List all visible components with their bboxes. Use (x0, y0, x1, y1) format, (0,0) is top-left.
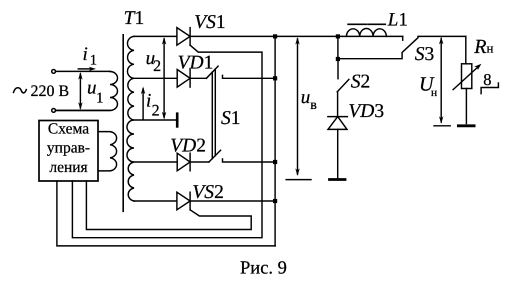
svg-text:S3: S3 (415, 44, 435, 65)
current arrow i2 (142, 89, 144, 120)
switch S2 upper lead (337, 59, 339, 79)
thyristor VS1 (177, 28, 190, 46)
control box (39, 121, 98, 182)
svg-text:u2: u2 (146, 48, 162, 75)
wire control common to cathode bus (57, 181, 275, 246)
diode VD2 (177, 153, 190, 171)
svg-text:VD1: VD1 (178, 52, 214, 73)
node dot S2 branch (336, 57, 340, 61)
wire row2 (134, 77, 206, 79)
svg-text:VS1: VS1 (194, 12, 225, 33)
svg-text:u1: u1 (87, 77, 104, 106)
svg-text:VD3: VD3 (348, 101, 384, 122)
wire VS2 gate to control box (86, 181, 251, 230)
node dot row4/bus (273, 160, 277, 164)
voltage arrow u2 (163, 39, 165, 118)
inductor L1 (346, 29, 386, 37)
wire row3 center tap (134, 119, 176, 121)
svg-text:VS2: VS2 (192, 182, 223, 203)
svg-text:S2: S2 (351, 71, 371, 92)
wire source bottom (56, 109, 110, 111)
resistor Rn (462, 64, 472, 89)
wire source top (56, 70, 110, 72)
switch S1 top blade (206, 66, 218, 78)
wire load branch down (465, 36, 467, 63)
wire node L1 input vertical (337, 36, 339, 59)
svg-text:Схема: Схема (48, 121, 89, 138)
wire S3 bypass branch (338, 38, 418, 59)
diode VD3 (328, 116, 348, 118)
node dot top (336, 34, 340, 38)
svg-text:220 В: 220 В (31, 83, 70, 100)
primary winding (56, 72, 118, 111)
wire row5 (134, 200, 275, 202)
resistor Rn variable arrow (453, 66, 479, 90)
switch S1 link lines (211, 72, 213, 158)
switch S1 bottom blade (209, 150, 221, 162)
current arrow i1 (78, 68, 92, 70)
node uv reference bar (286, 179, 311, 181)
voltage arrow Un (440, 39, 442, 123)
wire VD3 anode down (337, 129, 339, 178)
svg-text:Rн: Rн (473, 36, 493, 58)
svg-text:S1: S1 (221, 108, 241, 129)
AC source terminal bottom (52, 109, 56, 113)
wire row4 fixed contact to bus (223, 159, 276, 162)
switch S2 blade (337, 79, 349, 92)
node dot row1/bus (273, 34, 277, 38)
wire row4 (134, 161, 209, 163)
wire VS1 gate to control box (72, 45, 262, 238)
svg-text:i2: i2 (146, 90, 160, 119)
diode VD1 (177, 70, 190, 88)
transformer T1 core (122, 35, 124, 212)
voltage arrow u1 (79, 74, 81, 108)
svg-text:Рис. 9: Рис. 9 (240, 259, 287, 279)
inductor L1 core dashes (348, 23, 366, 25)
svg-text:T1: T1 (124, 8, 145, 29)
node dot row5/bus (273, 199, 277, 203)
node center tap bar (176, 114, 179, 127)
secondary winding (127, 36, 134, 201)
wire row1 after S3 (418, 35, 466, 37)
svg-text:L1: L1 (387, 9, 408, 30)
svg-text:управ-: управ- (47, 140, 90, 157)
thyristor VS2 (177, 192, 190, 210)
svg-text:i1: i1 (83, 44, 98, 69)
wire row2 fixed contact to bus (223, 75, 276, 78)
node dot row2/bus (273, 76, 277, 80)
sync winding (98, 132, 116, 171)
AC source terminal top (52, 70, 56, 74)
label ~ AC (14, 88, 27, 93)
switch S3 fixed contact tick (402, 36, 404, 40)
wire cathode bus (274, 36, 276, 246)
node Un reference bar (434, 125, 450, 127)
svg-text:8: 8 (483, 70, 491, 89)
svg-text:uв: uв (301, 87, 318, 113)
wire S2 to VD3 (337, 92, 339, 117)
ground VD3 (330, 178, 346, 181)
svg-text:VD2: VD2 (170, 135, 206, 156)
svg-text:Uн: Uн (419, 74, 437, 99)
ground Rn (458, 124, 474, 127)
svg-text:ления: ления (49, 159, 87, 176)
wire row1 anode VS1 (134, 35, 403, 37)
voltage arrow uv (297, 39, 299, 174)
